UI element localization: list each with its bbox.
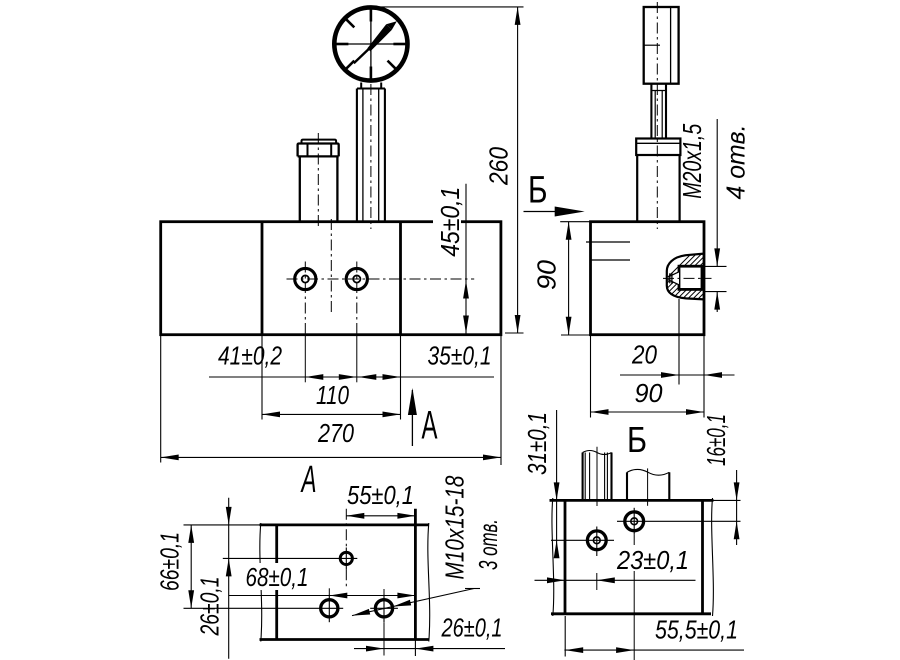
view A direction arrowhead — [408, 388, 417, 415]
dimension line 23 — [535, 579, 696, 581]
gauge vertical axis line — [370, 7, 372, 82]
block division line left — [261, 222, 264, 335]
small fitting centerline — [317, 133, 319, 227]
svg-text:Б: Б — [528, 170, 548, 212]
extension line hole top — [704, 265, 727, 267]
svg-text:Б: Б — [627, 419, 647, 460]
extension line x679 — [678, 299, 680, 385]
hole B2 centerline ext for dim 23 — [596, 573, 598, 590]
svg-text:26±0,1: 26±0,1 — [441, 613, 503, 643]
view A left thick edge — [275, 525, 278, 640]
svg-text:90: 90 — [532, 259, 562, 290]
dimension line 270 — [161, 456, 501, 458]
svg-text:55,5±0,1: 55,5±0,1 — [655, 615, 738, 645]
row line hole A1 — [223, 557, 336, 559]
hole B2 vertical cross — [596, 527, 598, 557]
svg-text:4 отв.: 4 отв. — [721, 125, 751, 200]
svg-text:20: 20 — [631, 340, 657, 370]
svg-text:3 отв.: 3 отв. — [473, 519, 503, 570]
arrow 90 bottom right — [686, 409, 704, 415]
svg-text:260: 260 — [484, 147, 514, 186]
svg-text:41±0,2: 41±0,2 — [218, 341, 282, 371]
hole H2 vertical centerline — [356, 262, 358, 331]
extension line bottom left — [561, 334, 591, 336]
extension line 260 bottom — [505, 332, 524, 334]
extension line left edge — [160, 335, 162, 463]
gauge neck — [360, 83, 362, 89]
small valve fitting hex band — [298, 144, 339, 157]
view A top edge — [260, 524, 429, 527]
hole H2 (main view) — [346, 268, 367, 289]
arrow 110 left — [262, 412, 280, 418]
hole A1 (view A) — [340, 552, 352, 564]
arrow 68 right — [397, 593, 415, 599]
extension line right edge — [500, 335, 502, 465]
svg-text:М10х15-18: М10х15-18 — [440, 475, 470, 579]
left shaft centerline — [596, 447, 598, 506]
hole B1 centerline down — [633, 534, 635, 660]
gauge tick SE — [388, 61, 397, 70]
leader bar M10 — [465, 588, 480, 590]
arrow 55 left — [346, 513, 364, 519]
knob (right view) — [644, 7, 679, 84]
arrow 110 right — [383, 412, 401, 418]
arrow 45 bottom (down) — [463, 316, 469, 334]
left shaft (view Б) — [582, 453, 584, 501]
view B direction arrow line — [524, 211, 557, 213]
view Б left break line — [552, 498, 554, 616]
arrow M20 bottom — [714, 292, 720, 310]
svg-text:26±0,1: 26±0,1 — [195, 577, 225, 637]
arrow 55,5 left — [565, 647, 583, 653]
hole B2 horizontal line + ext left — [551, 539, 614, 541]
dimension line 90 (left) — [568, 222, 570, 335]
dimension line 16 — [736, 470, 738, 545]
svg-text:31±0,1: 31±0,1 — [522, 412, 552, 475]
dimension line M20 lower — [716, 292, 718, 312]
svg-text:90: 90 — [635, 378, 664, 408]
arrow 16 top (outside) — [734, 482, 740, 500]
pressure gauge dial — [334, 7, 407, 80]
arrow 90 bottom left — [591, 409, 609, 415]
dimension line 31 — [556, 410, 558, 557]
arrow 26L bottom (outside) — [226, 558, 232, 576]
extension line x262 — [261, 335, 263, 420]
right edge extension down (view A) — [414, 640, 416, 657]
hole A3 centerline upper — [383, 589, 385, 595]
hole A3 (view A) — [375, 600, 392, 617]
view A direction arrow line — [411, 390, 413, 446]
hole A1 centerline lower — [345, 569, 347, 587]
dimension line 45 — [465, 184, 467, 335]
view B direction arrowhead — [555, 207, 585, 217]
arrow at x400 pointing right — [383, 374, 401, 380]
drill cone chamfer — [668, 272, 679, 285]
leader line M10 — [352, 589, 474, 616]
top edge extension left — [560, 221, 590, 223]
arrow at H2 pointing right — [339, 374, 357, 380]
arrow 270 left — [161, 455, 179, 461]
gauge stem centerline — [370, 84, 372, 229]
arrow at H2 pointing left — [358, 374, 376, 380]
view A right thick edge — [414, 509, 417, 640]
view A bottom edge — [260, 638, 429, 641]
gauge tick N — [370, 8, 373, 22]
svg-text:35±0,1: 35±0,1 — [428, 341, 492, 371]
arrow 23 left (outside) — [547, 577, 565, 583]
svg-text:M20x1,5: M20x1,5 — [677, 123, 707, 198]
svg-text:16±0,1: 16±0,1 — [701, 414, 731, 466]
dimension line 55 — [346, 515, 415, 517]
hole B1 horizontal line + ext right — [617, 520, 741, 522]
holes horizontal centerline — [287, 278, 475, 280]
dimension line 90 (bottom) — [591, 411, 705, 413]
view Б left thick edge — [564, 500, 567, 613]
arrow 31 top (outside) — [554, 482, 560, 500]
arrow 66 bottom — [188, 590, 194, 608]
gauge tick E — [393, 43, 407, 46]
rod (right view) — [650, 84, 652, 139]
hole B1 (view Б upper) — [625, 512, 644, 531]
view A right break line — [428, 523, 430, 642]
side plug hole (section) — [679, 266, 702, 289]
dimension line 110 — [262, 413, 401, 415]
arrow 55 right — [397, 513, 415, 519]
arrow 66 top — [188, 525, 194, 543]
fitting body (right view) — [636, 155, 638, 222]
svg-text:110: 110 — [316, 380, 349, 410]
arrow 31 bottom (outside) — [554, 540, 560, 558]
svg-text:270: 270 — [317, 418, 354, 448]
arrow 20 left (outside) — [661, 372, 679, 378]
arrow 90 left bottom — [566, 317, 572, 335]
arrow 26B right (outside) — [415, 646, 433, 652]
side plug centerline — [663, 277, 712, 279]
extension line x400 — [400, 335, 402, 420]
arrow 26L top (outside) — [226, 507, 232, 525]
view Б top edge — [550, 499, 714, 502]
gauge needle — [354, 46, 372, 63]
svg-text:45±0,1: 45±0,1 — [435, 187, 465, 257]
view Б bottom edge — [551, 612, 711, 615]
svg-text:68±0,1: 68±0,1 — [246, 562, 309, 592]
block division line right — [399, 222, 402, 335]
fitting centerline (right view) — [656, 2, 658, 229]
arrow 260 bottom — [515, 315, 521, 333]
dimension line M20 upper — [716, 119, 718, 266]
block outline (main view) — [161, 222, 501, 335]
hole B1 vertical cross — [633, 508, 635, 535]
dimension line 26 bottom — [354, 648, 505, 650]
gauge horizontal axis line — [334, 43, 409, 45]
view Б right thick edge — [701, 500, 704, 613]
top edge extension right (view Б) — [703, 499, 741, 501]
extension line left edge down (view Б) — [564, 616, 566, 657]
symmetry centerline between holes — [330, 219, 332, 315]
hole B2 (view Б lower) — [587, 531, 606, 550]
top edge extension left (view A) — [184, 524, 260, 526]
right shaft centerline — [647, 468, 649, 505]
block interior line 1 — [586, 241, 630, 243]
gauge tick W — [335, 43, 349, 46]
svg-text:66±0,1: 66±0,1 — [155, 532, 185, 591]
dimension line 26 left — [228, 498, 230, 659]
extension line left edge down — [590, 335, 592, 418]
collar / packing nut (right view) — [636, 139, 680, 156]
arrow 90 left top — [566, 222, 572, 240]
svg-text:55±0,1: 55±0,1 — [347, 480, 414, 510]
hole H2 centerline extension — [356, 330, 358, 382]
dimension line 66 — [190, 525, 192, 608]
arrow 23 right (outside) — [597, 577, 615, 583]
arrow 270 right — [483, 455, 501, 461]
hole A1 centerline upper — [345, 509, 347, 548]
svg-text:А: А — [422, 404, 438, 448]
right shaft (view Б) — [626, 472, 628, 500]
arrow 20 right (outside) — [704, 372, 722, 378]
extension line hole bottom — [704, 291, 727, 293]
extension line right edge down — [703, 335, 705, 418]
svg-text:23±0,1: 23±0,1 — [616, 545, 689, 575]
hole A2 centerline upper — [328, 588, 330, 594]
leader arrow at hole A3 — [393, 600, 411, 607]
arrow 16 bottom (outside) — [734, 521, 740, 539]
svg-text:А: А — [300, 459, 316, 501]
arrow 68 left — [329, 593, 347, 599]
small valve fitting body — [298, 155, 339, 157]
gauge tick SW — [345, 61, 354, 70]
arrow at H1 pointing left — [305, 374, 323, 380]
hole H1 vertical centerline — [304, 262, 306, 331]
dimension line 260 — [517, 7, 519, 333]
leader arrow at hole A2 — [352, 609, 370, 616]
block interior line 2 — [591, 259, 631, 261]
gauge tick NW — [345, 19, 354, 28]
hole H1 (main view) — [295, 268, 316, 289]
view Б right break line — [712, 498, 714, 616]
dimension line 68 — [229, 595, 415, 597]
dimension line 20 — [620, 374, 735, 376]
arrow 55,5 right — [616, 647, 634, 653]
gauge tick S — [370, 67, 373, 81]
gauge stem column — [356, 89, 358, 222]
small valve fitting cap — [302, 140, 337, 144]
hole A3 centerline to bottom dim — [383, 622, 385, 655]
row line holes A2 A3 — [184, 607, 316, 609]
view A left break line — [260, 523, 262, 642]
dimension line 55,5 — [564, 649, 744, 651]
hole H1 centerline extension — [304, 330, 306, 382]
dimension line 41/35 — [209, 376, 494, 378]
extension line from gauge top — [371, 6, 524, 8]
hole A2 (view A) — [321, 600, 338, 617]
arrow 26B left (outside) — [366, 646, 384, 652]
block outline (right view) — [591, 222, 705, 335]
arrow 45 top (up) — [463, 281, 469, 299]
arrow M20 top — [714, 248, 720, 266]
arrow 260 top — [515, 7, 521, 25]
